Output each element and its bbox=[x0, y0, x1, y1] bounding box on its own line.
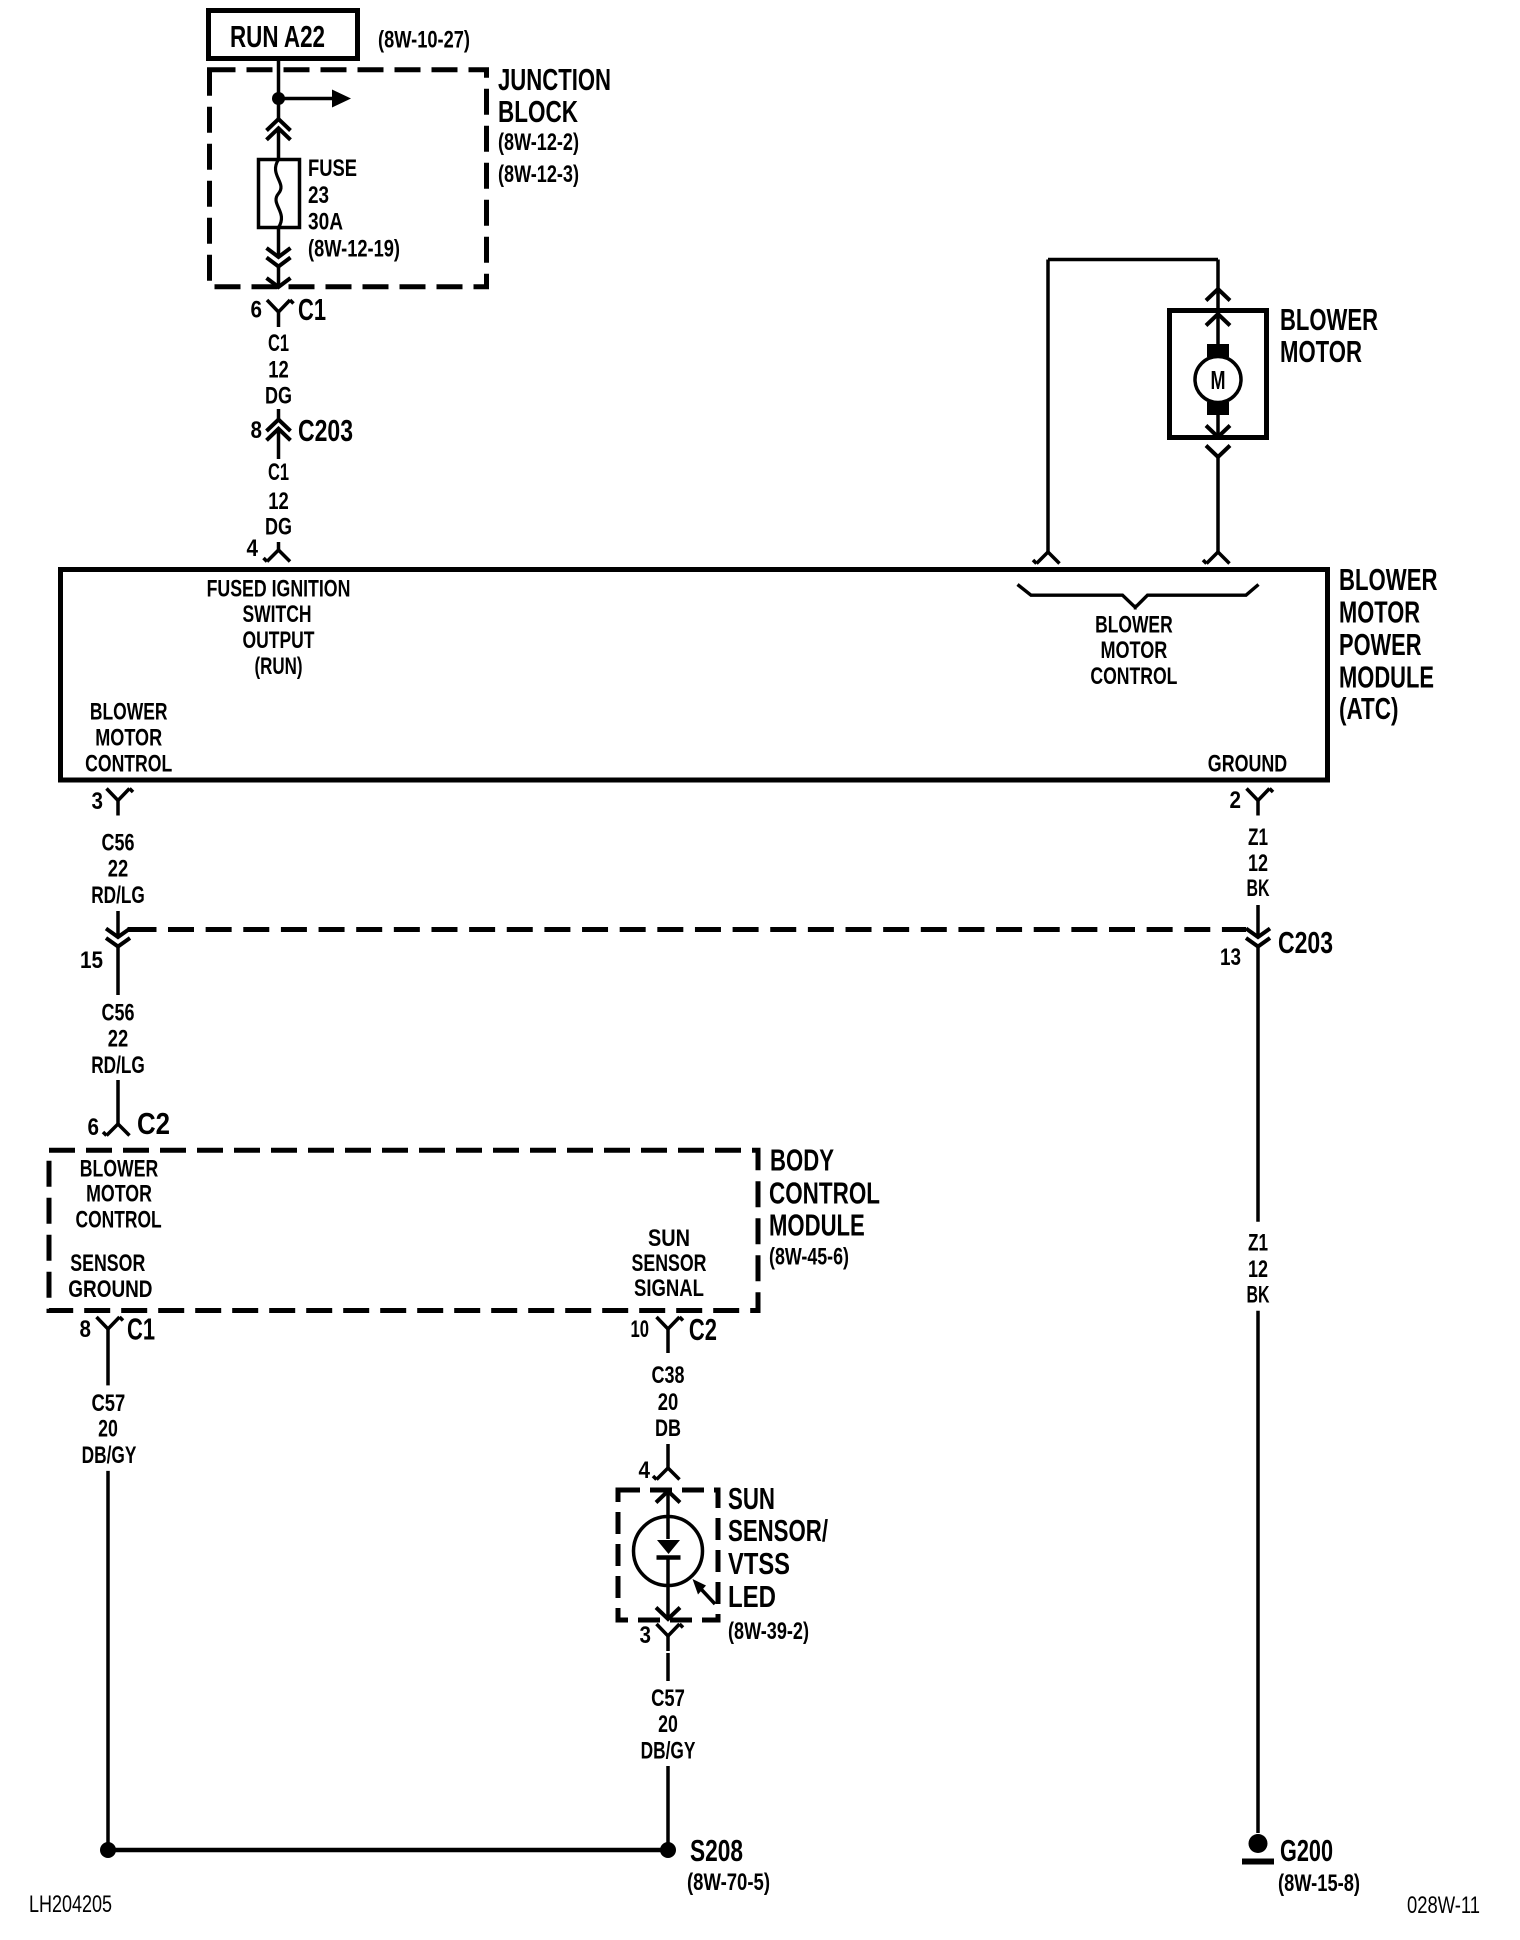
svg-text:8: 8 bbox=[80, 1316, 92, 1343]
svg-text:(8W-70-5): (8W-70-5) bbox=[687, 1869, 770, 1896]
svg-text:GROUND: GROUND bbox=[1208, 751, 1287, 778]
svg-text:GROUND: GROUND bbox=[68, 1276, 152, 1303]
svg-text:2: 2 bbox=[1230, 787, 1242, 814]
svg-text:CONTROL: CONTROL bbox=[76, 1207, 162, 1234]
svg-text:BK: BK bbox=[1247, 875, 1270, 902]
svg-text:SENSOR: SENSOR bbox=[70, 1250, 145, 1277]
svg-text:C38: C38 bbox=[652, 1362, 685, 1389]
svg-text:Z1: Z1 bbox=[1248, 1230, 1268, 1257]
svg-text:6: 6 bbox=[251, 297, 263, 324]
svg-text:DB/GY: DB/GY bbox=[82, 1442, 137, 1469]
svg-text:C2: C2 bbox=[689, 1312, 717, 1347]
svg-text:(8W-45-6): (8W-45-6) bbox=[769, 1244, 849, 1271]
svg-text:C57: C57 bbox=[92, 1390, 126, 1417]
svg-text:(ATC): (ATC) bbox=[1339, 691, 1399, 726]
svg-text:10: 10 bbox=[631, 1316, 650, 1343]
svg-text:LED: LED bbox=[728, 1579, 776, 1614]
svg-text:POWER: POWER bbox=[1339, 627, 1422, 662]
svg-text:(8W-10-27): (8W-10-27) bbox=[378, 27, 470, 54]
svg-text:C57: C57 bbox=[651, 1685, 685, 1712]
svg-text:15: 15 bbox=[80, 947, 103, 974]
svg-text:C56: C56 bbox=[102, 830, 135, 857]
svg-text:028W-11: 028W-11 bbox=[1407, 1892, 1480, 1919]
svg-text:SUN: SUN bbox=[728, 1481, 775, 1516]
svg-text:C1: C1 bbox=[298, 292, 326, 327]
svg-text:20: 20 bbox=[98, 1416, 118, 1443]
svg-text:20: 20 bbox=[658, 1389, 679, 1416]
svg-text:C56: C56 bbox=[102, 1000, 135, 1027]
svg-text:C1: C1 bbox=[127, 1312, 155, 1347]
svg-text:BLOWER: BLOWER bbox=[1095, 612, 1173, 639]
svg-text:SWITCH: SWITCH bbox=[243, 601, 312, 628]
svg-text:12: 12 bbox=[1248, 1256, 1268, 1283]
svg-text:(8W-39-2): (8W-39-2) bbox=[728, 1618, 809, 1645]
svg-text:DB: DB bbox=[655, 1415, 681, 1442]
svg-text:MODULE: MODULE bbox=[769, 1207, 865, 1242]
svg-text:8: 8 bbox=[251, 417, 263, 444]
svg-text:4: 4 bbox=[247, 535, 259, 562]
svg-text:12: 12 bbox=[1248, 850, 1268, 877]
svg-text:BLOWER: BLOWER bbox=[80, 1156, 158, 1183]
svg-text:12: 12 bbox=[268, 488, 289, 515]
svg-text:MOTOR: MOTOR bbox=[86, 1181, 152, 1208]
svg-text:FUSED IGNITION: FUSED IGNITION bbox=[207, 575, 351, 602]
svg-text:(8W-12-3): (8W-12-3) bbox=[498, 161, 579, 188]
svg-text:C1: C1 bbox=[268, 459, 289, 486]
svg-text:MOTOR: MOTOR bbox=[95, 724, 162, 751]
svg-text:S208: S208 bbox=[690, 1833, 743, 1868]
svg-text:JUNCTION: JUNCTION bbox=[498, 62, 611, 97]
svg-text:OUTPUT: OUTPUT bbox=[243, 627, 315, 654]
svg-text:DG: DG bbox=[265, 514, 292, 541]
svg-text:(8W-12-2): (8W-12-2) bbox=[498, 129, 579, 156]
svg-text:(8W-15-8): (8W-15-8) bbox=[1278, 1870, 1360, 1897]
svg-text:MOTOR: MOTOR bbox=[1100, 637, 1167, 664]
svg-text:SENSOR: SENSOR bbox=[632, 1250, 707, 1277]
svg-text:CONTROL: CONTROL bbox=[769, 1176, 880, 1211]
svg-text:12: 12 bbox=[268, 357, 289, 384]
svg-text:20: 20 bbox=[658, 1711, 678, 1738]
svg-text:MOTOR: MOTOR bbox=[1339, 595, 1420, 630]
svg-text:CONTROL: CONTROL bbox=[1090, 663, 1177, 690]
svg-text:DB/GY: DB/GY bbox=[641, 1738, 696, 1765]
svg-text:Z1: Z1 bbox=[1248, 824, 1268, 851]
svg-text:RD/LG: RD/LG bbox=[91, 1052, 145, 1079]
svg-text:6: 6 bbox=[88, 1114, 100, 1141]
svg-text:23: 23 bbox=[308, 182, 329, 209]
svg-text:C203: C203 bbox=[1278, 925, 1333, 960]
svg-text:30A: 30A bbox=[308, 209, 343, 236]
svg-text:3: 3 bbox=[640, 1622, 652, 1649]
svg-text:M: M bbox=[1211, 365, 1226, 395]
svg-text:BK: BK bbox=[1247, 1282, 1270, 1309]
svg-text:SENSOR/: SENSOR/ bbox=[728, 1513, 828, 1548]
svg-text:(RUN): (RUN) bbox=[255, 653, 303, 680]
svg-text:MOTOR: MOTOR bbox=[1280, 334, 1362, 369]
svg-text:LH204205: LH204205 bbox=[29, 1891, 112, 1918]
svg-text:SUN: SUN bbox=[648, 1225, 690, 1252]
svg-text:BLOWER: BLOWER bbox=[1280, 302, 1378, 337]
svg-text:BLOWER: BLOWER bbox=[1339, 562, 1438, 597]
svg-text:C2: C2 bbox=[137, 1106, 170, 1141]
svg-text:BODY: BODY bbox=[770, 1142, 834, 1177]
svg-text:13: 13 bbox=[1220, 944, 1241, 971]
svg-text:(8W-12-19): (8W-12-19) bbox=[308, 236, 400, 263]
svg-text:BLOCK: BLOCK bbox=[498, 94, 578, 129]
svg-text:RUN A22: RUN A22 bbox=[230, 19, 325, 54]
svg-text:C1: C1 bbox=[268, 330, 289, 357]
svg-text:MODULE: MODULE bbox=[1339, 660, 1434, 695]
svg-text:CONTROL: CONTROL bbox=[85, 750, 172, 777]
svg-text:3: 3 bbox=[92, 788, 104, 815]
svg-text:G200: G200 bbox=[1280, 1833, 1333, 1868]
svg-text:4: 4 bbox=[639, 1457, 651, 1484]
svg-text:C203: C203 bbox=[298, 413, 353, 448]
svg-text:22: 22 bbox=[108, 856, 128, 883]
svg-text:SIGNAL: SIGNAL bbox=[634, 1275, 704, 1302]
svg-text:BLOWER: BLOWER bbox=[90, 698, 168, 725]
svg-text:RD/LG: RD/LG bbox=[91, 882, 145, 909]
svg-text:DG: DG bbox=[265, 383, 292, 410]
svg-text:FUSE: FUSE bbox=[308, 155, 357, 182]
svg-text:VTSS: VTSS bbox=[728, 1546, 790, 1581]
svg-text:22: 22 bbox=[108, 1026, 128, 1053]
